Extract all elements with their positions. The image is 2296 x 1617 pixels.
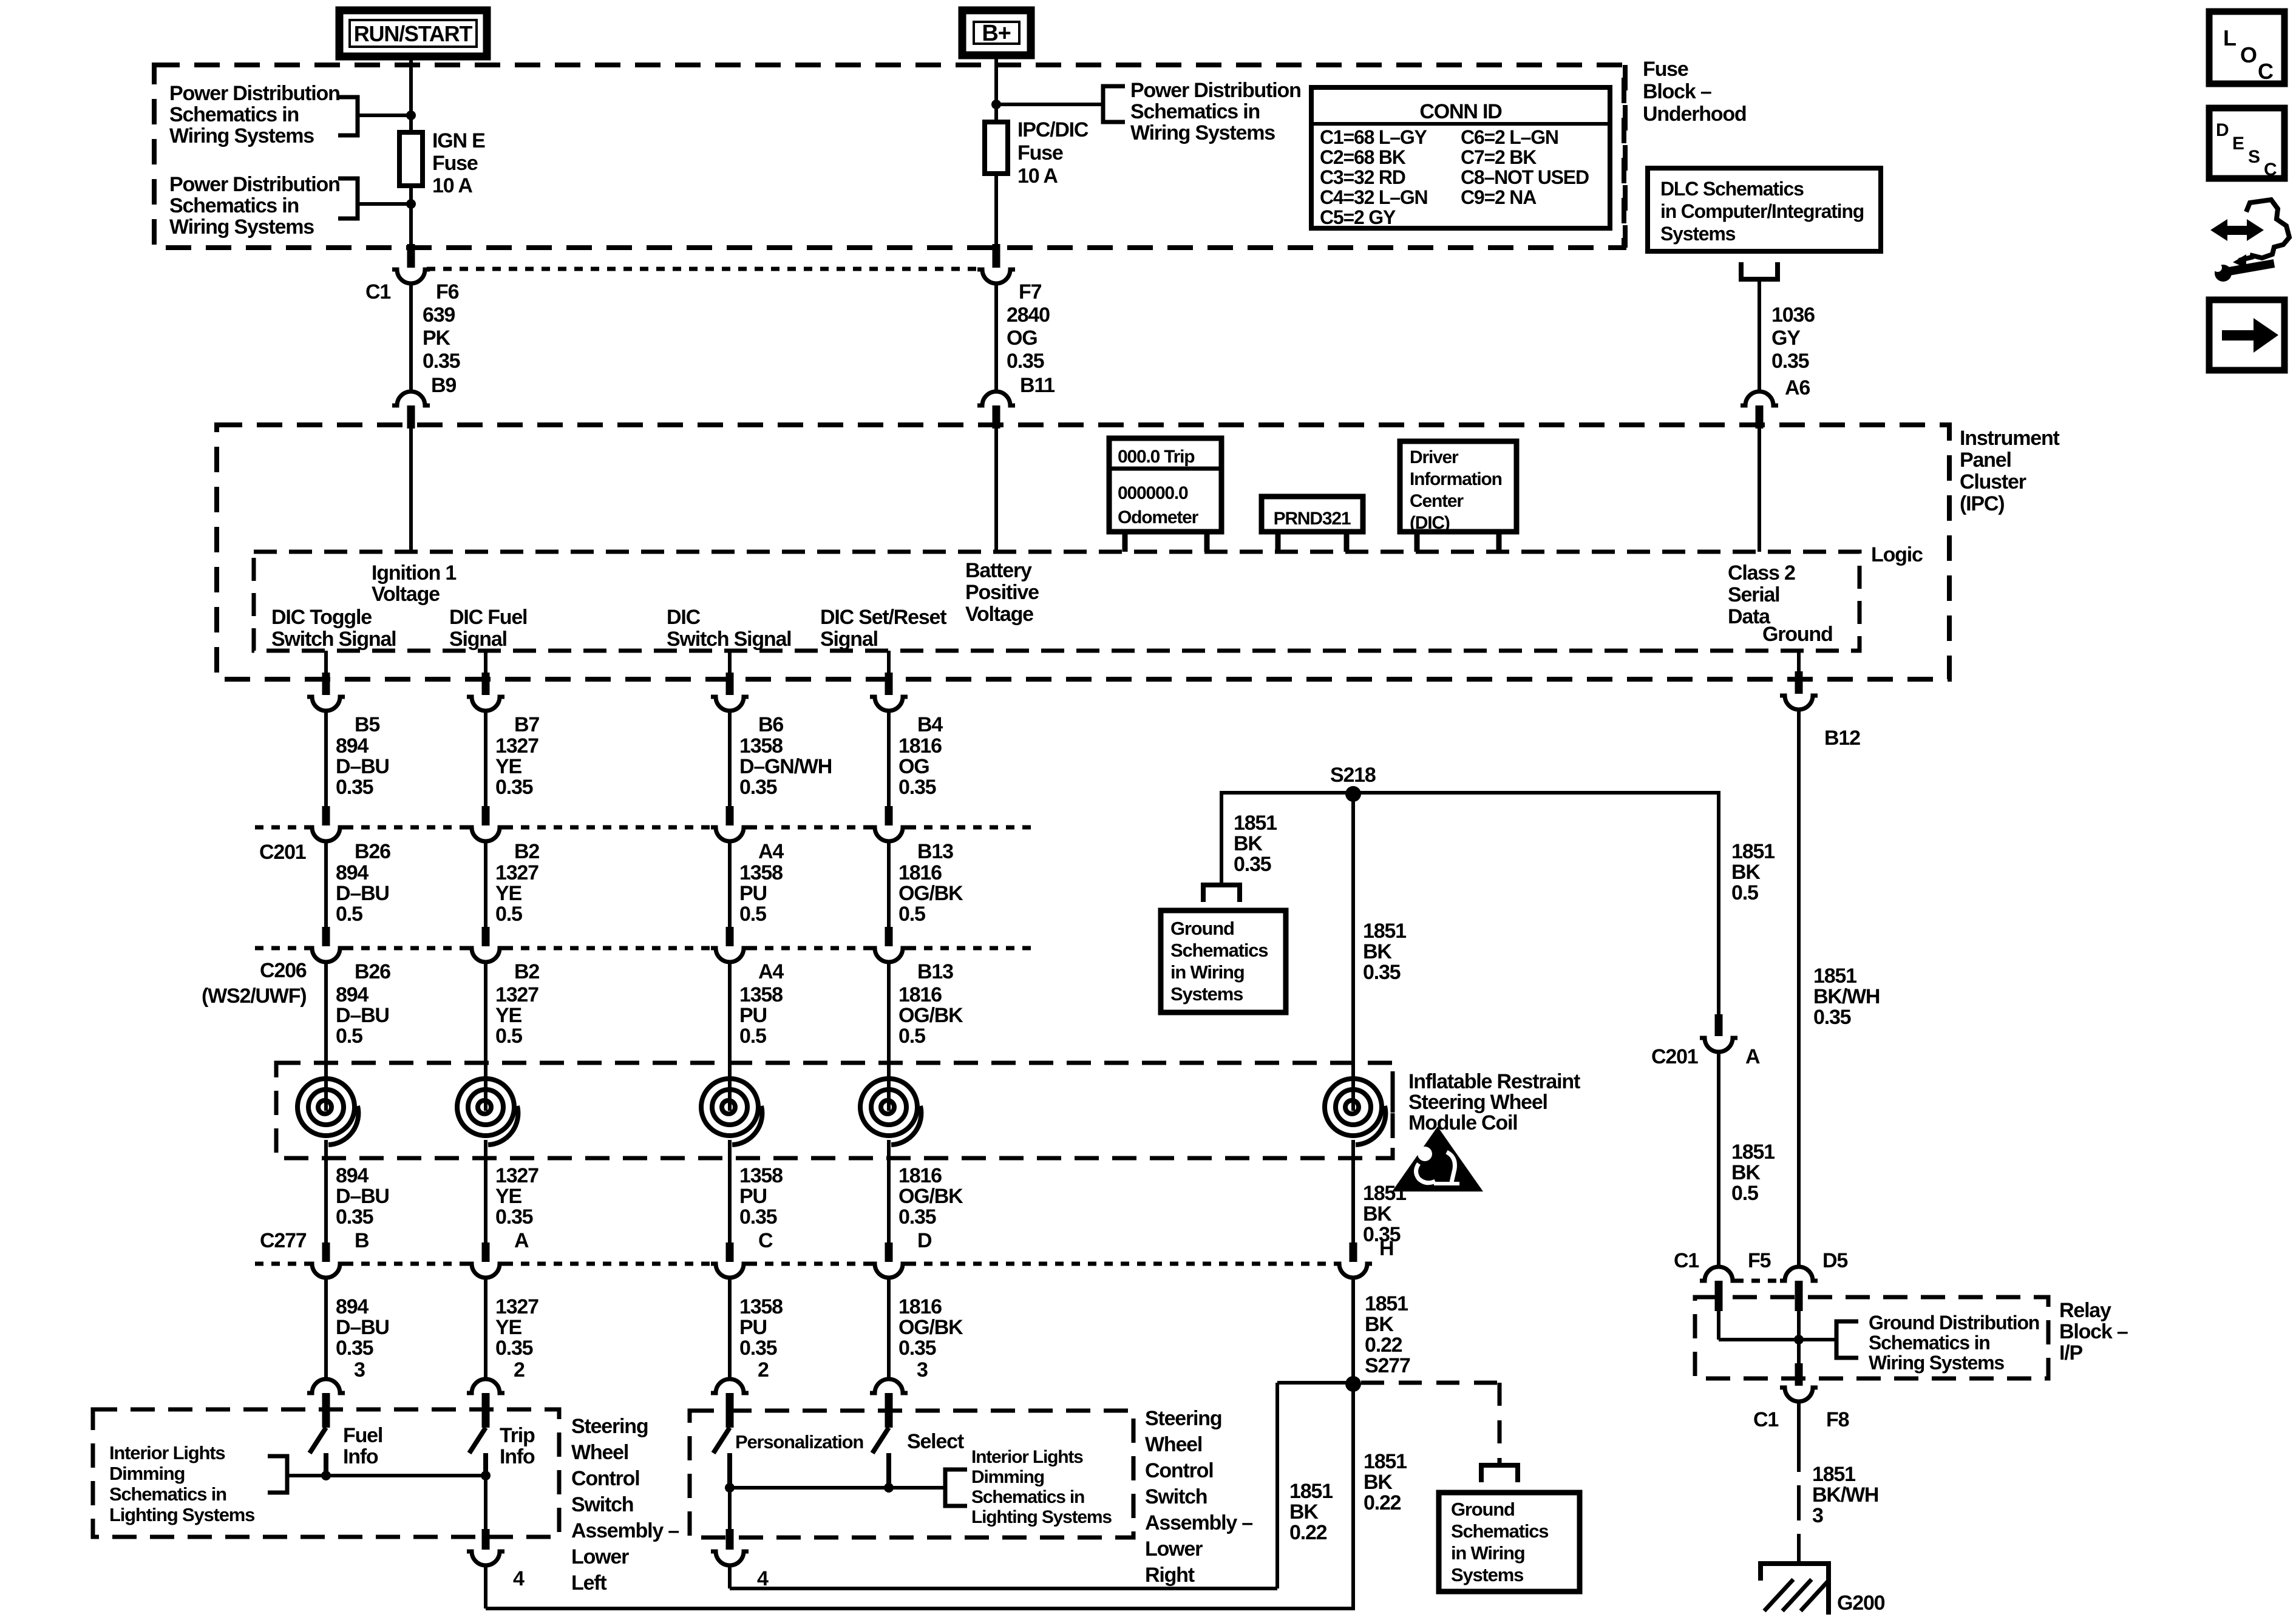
wire to S277 bottom [486,1607,1355,1610]
svg-text:Ground: Ground [1762,623,1833,646]
svg-text:Fuel: Fuel [343,1424,382,1447]
icon DESC [2209,108,2284,178]
svg-text:Odometer: Odometer [1118,507,1199,527]
svg-text:H: H [1379,1237,1393,1260]
signal column B7 [484,651,487,674]
svg-text:Panel: Panel [1960,449,2011,472]
svg-text:Schematics: Schematics [1451,1520,1548,1542]
svg-text:OG/BK: OG/BK [898,1185,963,1208]
svg-text:3: 3 [917,1358,928,1381]
svg-text:S218: S218 [1330,764,1376,787]
svg-text:1358: 1358 [739,1164,783,1187]
svg-text:Select: Select [907,1430,964,1453]
svg-text:Voltage: Voltage [372,583,440,606]
connector line C1 dotted (relay) [1735,1279,1784,1283]
svg-text:Signal: Signal [820,628,878,651]
svg-text:A: A [514,1229,529,1252]
svg-text:Relay: Relay [2059,1299,2111,1322]
svg-text:D–BU: D–BU [336,1316,389,1339]
svg-text:B7: B7 [514,713,539,736]
svg-text:0.22: 0.22 [1365,1334,1402,1357]
coil [701,1079,758,1136]
svg-text:3: 3 [354,1358,365,1381]
wire ground B12 [1797,651,1801,673]
svg-text:B4: B4 [917,713,943,736]
svg-text:0.35: 0.35 [898,1337,936,1360]
svg-text:Control: Control [571,1467,639,1490]
svg-text:639: 639 [423,303,455,327]
svg-text:YE: YE [495,882,521,905]
svg-text:Schematics in: Schematics in [1130,100,1260,123]
svg-text:Ground Distribution: Ground Distribution [1869,1312,2039,1334]
connector B26 at C206 [322,927,330,946]
svg-text:B: B [355,1229,369,1252]
svg-text:Schematics: Schematics [1170,940,1268,961]
svg-text:B12: B12 [1824,727,1860,750]
svg-text:Underhood: Underhood [1643,103,1747,126]
svg-text:1816: 1816 [898,861,942,884]
bracket power distribution B+ [1103,86,1125,122]
svg-text:C1=68 L–GY: C1=68 L–GY [1320,126,1427,148]
icon wrench [2215,265,2232,282]
svg-text:1851: 1851 [1731,1141,1775,1164]
svg-text:I/P: I/P [2059,1341,2082,1364]
svg-text:C206: C206 [260,959,307,982]
svg-text:C1: C1 [1674,1249,1699,1272]
svg-text:IPC/DIC: IPC/DIC [1017,118,1089,141]
svg-text:Block –: Block – [1643,80,1711,103]
svg-text:1358: 1358 [739,983,783,1006]
svg-text:O: O [2240,42,2257,67]
svg-text:PRND321: PRND321 [1274,509,1351,529]
svg-text:D–BU: D–BU [336,882,389,905]
connector B2 at C206 [482,927,490,946]
svg-text:Center: Center [1410,491,1464,511]
svg-text:0.35: 0.35 [739,776,777,799]
svg-text:894: 894 [336,734,369,758]
svg-text:Steering Wheel: Steering Wheel [1408,1091,1547,1114]
svg-text:1358: 1358 [739,734,783,758]
svg-text:IGN E: IGN E [432,129,485,152]
svg-text:1851: 1851 [1365,1292,1408,1315]
svg-text:D–BU: D–BU [336,1004,389,1027]
svg-text:Steering: Steering [571,1415,648,1438]
bracket interior lights left [268,1456,287,1493]
display driver information center [1400,441,1517,532]
svg-text:YE: YE [495,1316,521,1339]
svg-text:10 A: 10 A [1017,164,1058,188]
svg-text:1358: 1358 [739,861,783,884]
wire S218 left [1221,791,1353,795]
svg-text:000.0 Trip: 000.0 Trip [1118,447,1195,467]
connector A6 [1741,392,1778,405]
svg-text:1327: 1327 [495,983,538,1006]
svg-text:YE: YE [495,755,521,778]
svg-text:Dimming: Dimming [109,1463,185,1484]
svg-text:Lower: Lower [1145,1537,1203,1561]
wire 639 PK 0.35 [409,283,413,392]
svg-text:0.35: 0.35 [1771,350,1809,373]
icon hand with arrow [2210,219,2227,241]
svg-text:1851: 1851 [1234,812,1277,835]
DLC Schematics box [1648,168,1881,251]
svg-text:Wiring Systems: Wiring Systems [169,215,314,239]
svg-text:Schematics in: Schematics in [169,194,299,217]
svg-text:C2=68 BK: C2=68 BK [1320,146,1406,168]
fuse IPC/DIC 10A [985,122,1008,174]
svg-text:1327: 1327 [495,734,538,758]
svg-text:Lower: Lower [571,1545,629,1568]
svg-text:1851: 1851 [1289,1480,1333,1503]
svg-text:1327: 1327 [495,1164,538,1187]
svg-text:B11: B11 [1020,374,1055,397]
svg-text:BK: BK [1289,1500,1319,1524]
svg-text:Switch Signal: Switch Signal [271,628,396,651]
svg-text:B6: B6 [758,713,783,736]
svg-text:1851: 1851 [1813,964,1856,988]
connector C201 A [1715,1014,1723,1036]
svg-text:B13: B13 [917,960,953,983]
svg-text:3: 3 [1812,1504,1823,1527]
svg-text:D–GN/WH: D–GN/WH [739,755,832,778]
svg-text:Lighting Systems: Lighting Systems [971,1507,1112,1527]
svg-text:C6=2 L–GN: C6=2 L–GN [1461,126,1558,148]
svg-text:C1: C1 [365,280,390,303]
svg-text:Module Coil: Module Coil [1408,1111,1517,1134]
svg-text:YE: YE [495,1185,521,1208]
svg-text:D–BU: D–BU [336,1185,389,1208]
svg-text:0.35: 0.35 [495,776,533,799]
svg-text:YE: YE [495,1004,521,1027]
svg-text:0.35: 0.35 [739,1205,777,1229]
wire B+ to fuse [994,55,998,124]
svg-text:Dimming: Dimming [971,1467,1044,1487]
signal column B6 [728,651,732,674]
signal column B4 [887,651,891,674]
svg-text:Ground: Ground [1170,918,1234,939]
svg-text:0.22: 0.22 [1364,1491,1401,1514]
wire C201 A drop [1717,791,1720,1015]
svg-text:Power Distribution: Power Distribution [169,82,340,105]
fork ground schematics 1 [1203,885,1240,902]
connector B9 [392,392,430,405]
wire to S277 left branch [730,1587,1277,1590]
svg-text:Switch Signal: Switch Signal [667,628,791,651]
svg-text:Wheel: Wheel [571,1441,628,1464]
svg-text:0.35: 0.35 [423,350,460,373]
svg-text:B26: B26 [355,840,390,863]
power source B+ [962,10,1031,55]
svg-text:BK: BK [1731,861,1761,884]
svg-text:in Wiring: in Wiring [1170,961,1245,983]
wire ignition 1 voltage [409,429,413,552]
connector B11 [977,392,1015,405]
svg-text:C201: C201 [1651,1045,1698,1068]
svg-text:Class 2: Class 2 [1728,561,1795,585]
svg-text:F8: F8 [1826,1408,1849,1431]
svg-text:C5=2 GY: C5=2 GY [1320,206,1396,228]
svg-text:B9: B9 [431,374,456,397]
fork below DLC box [1741,262,1778,279]
coil box dashed [276,1063,1393,1158]
coil [457,1079,514,1136]
wire class 2 serial data [1758,429,1761,552]
svg-text:L: L [2223,25,2236,50]
svg-text:PU: PU [739,1004,767,1027]
ground schematics box 2 [1439,1493,1580,1592]
wire 2840 OG 0.35 [994,283,998,392]
svg-text:1851: 1851 [1364,1450,1407,1473]
connector pin 3 switch assembly [870,1379,908,1393]
connector line C206 dotted [255,946,307,951]
svg-text:S277: S277 [1365,1354,1410,1377]
svg-text:DLC Schematics: DLC Schematics [1660,178,1804,200]
signal column B5 [324,651,328,674]
connector line C201 dotted [255,825,307,830]
svg-text:F5: F5 [1748,1249,1771,1272]
svg-text:Fuse: Fuse [1017,141,1063,164]
svg-text:Interior Lights: Interior Lights [971,1447,1083,1467]
svg-text:BK/WH: BK/WH [1813,985,1880,1008]
svg-text:0.5: 0.5 [898,903,925,926]
svg-text:Switch: Switch [571,1493,633,1516]
wire bracket to node [358,114,411,117]
svg-text:OG/BK: OG/BK [898,1004,963,1027]
svg-text:Information: Information [1410,469,1502,489]
svg-text:Instrument: Instrument [1960,427,2060,450]
svg-text:1816: 1816 [898,1295,942,1318]
steering wheel switch box right [690,1411,1133,1537]
svg-text:C: C [758,1229,773,1252]
node junction B+ [991,100,1001,109]
svg-text:PK: PK [423,327,450,350]
svg-text:0.5: 0.5 [739,1025,766,1048]
svg-text:0.35: 0.35 [739,1337,777,1360]
svg-text:Schematics in: Schematics in [1869,1332,1990,1354]
connector A4 at C206 [726,927,734,946]
svg-text:BK: BK [1731,1161,1761,1184]
wire below IPC/DIC fuse [994,171,998,245]
svg-text:1851: 1851 [1731,840,1775,863]
fork ground schematics 2 [1481,1465,1518,1482]
svg-text:Ground: Ground [1451,1499,1515,1520]
connector C1 F8 [1795,1363,1803,1386]
svg-text:894: 894 [336,861,369,884]
svg-text:0.5: 0.5 [1731,881,1758,904]
svg-text:BK: BK [1363,940,1392,963]
svg-text:F7: F7 [1019,280,1042,303]
svg-text:894: 894 [336,983,369,1006]
svg-text:Left: Left [571,1571,606,1595]
svg-text:1327: 1327 [495,1295,538,1318]
svg-text:Logic: Logic [1871,543,1923,566]
connector C1 F7 [993,244,1000,268]
connector pin 3 switch assembly [307,1379,345,1393]
svg-text:Right: Right [1145,1564,1195,1587]
svg-text:0.5: 0.5 [336,903,362,926]
relay block box [1695,1297,2048,1378]
svg-text:C3=32 RD: C3=32 RD [1320,166,1405,188]
icon arrow box [2209,300,2284,370]
svg-text:PU: PU [739,1185,767,1208]
svg-text:C: C [2258,59,2274,84]
svg-text:OG: OG [898,755,929,778]
svg-text:1327: 1327 [495,861,538,884]
svg-text:10 A: 10 A [432,174,472,197]
svg-text:B2: B2 [514,840,539,863]
svg-text:Serial: Serial [1728,583,1779,606]
svg-text:Fuse: Fuse [1643,58,1688,81]
svg-text:Systems: Systems [1660,223,1736,245]
svg-text:Wiring Systems: Wiring Systems [169,124,314,147]
svg-text:Voltage: Voltage [965,603,1033,626]
svg-text:Trip: Trip [500,1424,535,1447]
connector H at C277 [1350,1242,1357,1262]
connector line C277 dotted [255,1262,307,1266]
personalization pin 4 [728,1488,732,1530]
connector A4 at C201 [726,806,734,825]
svg-text:BK/WH: BK/WH [1812,1483,1878,1507]
connector pin 2 switch assembly [467,1379,504,1393]
svg-text:0.35: 0.35 [336,1205,373,1229]
wire switch commons right [730,1486,945,1490]
svg-text:OG/BK: OG/BK [898,882,963,905]
svg-text:Control: Control [1145,1459,1213,1482]
svg-text:in Computer/Integrating: in Computer/Integrating [1660,200,1864,222]
instrument panel cluster box [217,425,1949,679]
ground schematics box 1 [1161,910,1286,1012]
svg-text:BK: BK [1363,1202,1392,1225]
svg-text:Schematics in: Schematics in [109,1483,226,1505]
svg-text:C7=2 BK: C7=2 BK [1461,146,1537,168]
svg-text:OG: OG [1007,327,1038,350]
connector D5 [1780,1267,1818,1281]
switch select [872,1428,889,1453]
svg-text:B5: B5 [355,713,379,736]
svg-text:Battery: Battery [965,559,1032,582]
fuse IGN E 10A [399,132,423,186]
svg-text:Driver: Driver [1410,447,1459,467]
svg-text:Block –: Block – [2059,1320,2128,1343]
svg-text:E: E [2232,134,2244,154]
svg-text:BK: BK [1234,832,1263,855]
svg-text:Steering: Steering [1145,1407,1221,1430]
svg-text:0.35: 0.35 [1234,853,1271,876]
fuse block right edge [1623,65,1628,248]
ground G200 [1761,1564,1829,1615]
svg-text:D: D [2216,120,2229,140]
switch personalization [713,1428,730,1453]
connector line C1 dotted [427,267,980,271]
svg-text:0.5: 0.5 [739,903,766,926]
svg-text:C277: C277 [260,1229,307,1252]
svg-text:0.35: 0.35 [1007,350,1044,373]
steering wheel switch box left [93,1409,559,1537]
logic box [254,552,1860,651]
svg-text:C201: C201 [259,841,306,864]
svg-text:0.35: 0.35 [336,1337,373,1360]
wire S218 right [1353,791,1719,795]
connector pin 2 switch assembly [711,1379,749,1393]
svg-text:894: 894 [336,1164,369,1187]
svg-text:Assembly –: Assembly – [571,1519,679,1542]
svg-text:0.22: 0.22 [1289,1521,1327,1544]
coil box label bracket [1391,1071,1395,1153]
connector B13 at C201 [885,806,893,825]
svg-text:B13: B13 [917,840,953,863]
svg-text:894: 894 [336,1295,369,1318]
bracket upper power distribution [338,97,358,135]
svg-text:0.35: 0.35 [1813,1006,1851,1029]
bracket lower power distribution [338,178,358,219]
switch trip info [469,1428,486,1453]
coil [860,1079,917,1136]
svg-text:C: C [2264,160,2277,180]
connector B12 [1780,696,1818,710]
svg-text:0.5: 0.5 [1731,1182,1758,1205]
svg-text:0.35: 0.35 [1363,961,1401,984]
svg-text:Cluster: Cluster [1960,470,2026,493]
wires inside relay block [1717,1311,1720,1340]
svg-text:0.5: 0.5 [336,1025,362,1048]
svg-text:Personalization: Personalization [735,1431,863,1453]
svg-text:0.5: 0.5 [495,1025,522,1048]
svg-text:DIC Set/Reset: DIC Set/Reset [820,606,946,629]
svg-text:C8–NOT USED: C8–NOT USED [1461,166,1589,188]
svg-text:0.5: 0.5 [898,1025,925,1048]
switch fuel info [310,1428,326,1453]
svg-text:2: 2 [514,1358,525,1381]
svg-text:G200: G200 [1837,1592,1885,1615]
svg-text:C4=32 L–GN: C4=32 L–GN [1320,186,1427,208]
svg-text:4: 4 [513,1567,525,1590]
svg-text:A: A [1745,1045,1760,1068]
svg-text:Systems: Systems [1170,983,1243,1005]
svg-text:PU: PU [739,1316,767,1339]
svg-text:Interior Lights: Interior Lights [109,1442,225,1463]
svg-text:Info: Info [500,1445,535,1468]
wire 1851 BK/WH 3 (broken) [1797,1402,1801,1472]
wire to bracket [996,103,1103,106]
bracket interior lights right [945,1470,967,1506]
svg-text:D5: D5 [1822,1249,1847,1272]
svg-text:BK: BK [1365,1313,1394,1336]
svg-text:Wiring Systems: Wiring Systems [1130,121,1275,144]
svg-text:000000.0: 000000.0 [1118,483,1188,503]
svg-text:Schematics in: Schematics in [169,103,299,126]
svg-text:PU: PU [739,882,767,905]
svg-text:DIC Toggle: DIC Toggle [271,606,372,629]
svg-text:Wheel: Wheel [1145,1433,1202,1456]
svg-text:B+: B+ [982,21,1010,46]
svg-text:Assembly –: Assembly – [1145,1511,1252,1534]
svg-text:0.35: 0.35 [336,776,373,799]
svg-text:CONN ID: CONN ID [1419,100,1502,123]
svg-text:1851: 1851 [1363,920,1406,943]
trip info pin 4 [484,1476,487,1530]
bracket ground distribution [1836,1321,1858,1358]
wire below fuse [409,183,413,245]
dashed wire S277 to ground schematics 2 [1361,1381,1500,1385]
svg-text:1036: 1036 [1771,303,1815,327]
svg-text:A4: A4 [758,960,784,983]
svg-text:RUN/START: RUN/START [354,21,473,46]
svg-text:Fuse: Fuse [432,152,478,175]
connector B26 at C201 [322,806,330,825]
svg-text:0.5: 0.5 [495,903,522,926]
wire S277 left branch [1277,1381,1353,1385]
svg-text:1816: 1816 [898,1164,942,1187]
